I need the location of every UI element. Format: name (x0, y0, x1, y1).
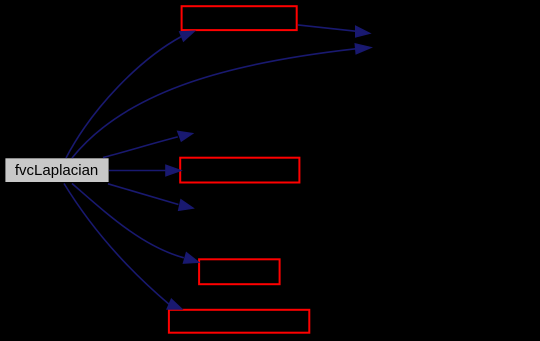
wire: edge fvcLaplacian to third red box (72, 184, 184, 258)
arrowhead far-right from fvcLaplacian (355, 44, 371, 54)
svg-text:fvcLaplacian: fvcLaplacian (15, 162, 98, 179)
node fvcLaplacian (gray box) (5, 158, 108, 182)
arrowhead into top red box (179, 31, 194, 41)
arrowhead into bottom red box (167, 299, 183, 309)
arrowhead into third red box (183, 252, 199, 263)
wire: edge fvcLaplacian to far-right node (upper) (72, 49, 356, 158)
node: middle red box (180, 158, 299, 183)
wire: edge top red box to far-right node (298, 25, 356, 31)
wire: edge fvcLaplacian to top red box (66, 37, 181, 159)
wire: edge fvcLaplacian to bottom red box (64, 184, 169, 305)
arrowhead to node above middle box (177, 131, 193, 141)
wire: edge fvcLaplacian to invisible node below middle box (108, 184, 178, 205)
arrowhead from top box to far-right node (356, 26, 371, 37)
arrowhead into middle red box (166, 165, 182, 176)
wire: edge fvcLaplacian to invisible node above middle box (103, 137, 178, 158)
node: top red box (182, 6, 297, 30)
node: third red box (199, 259, 280, 284)
node: bottom red box (169, 310, 309, 333)
arrowhead to node below middle box (178, 200, 193, 211)
wire: edge fvcLaplacian to middle red box (109, 170, 166, 172)
